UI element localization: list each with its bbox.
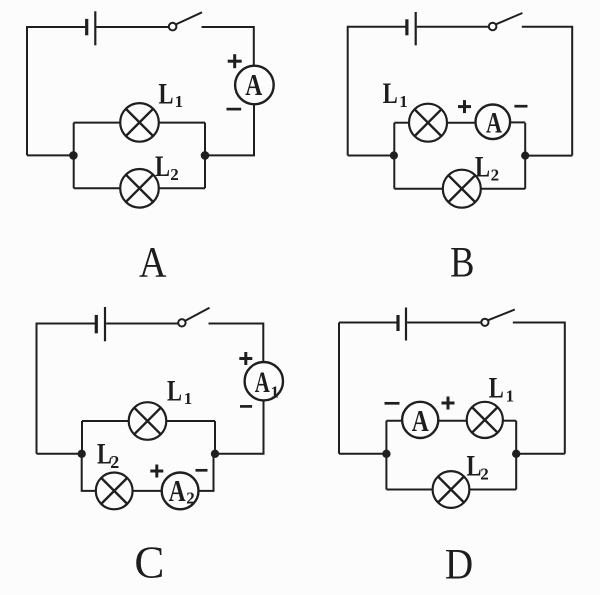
wire B left branch vertical [393, 123, 395, 189]
svg-text:A: A [139, 239, 167, 286]
node A right junction [201, 151, 210, 160]
ammeter A1-C [245, 362, 283, 402]
node C right junction [211, 450, 219, 458]
battery BT-C [96, 307, 105, 341]
wire A lower branch left [74, 187, 121, 189]
svg-text:A: A [245, 67, 262, 102]
polarity + of ammeter A-A [228, 54, 242, 68]
wire D right branch vertical [515, 421, 517, 490]
wire B ammeter to right branch [510, 121, 525, 123]
svg-text:A: A [486, 106, 502, 139]
wire C left branch vertical lower [82, 454, 96, 491]
wire B top-left segment [348, 26, 406, 28]
switch S-B [489, 13, 523, 30]
lamp L2-A [120, 169, 159, 208]
wire C upper branch right [166, 420, 215, 422]
wire C ammeter A1 down to main node row [215, 400, 264, 453]
node A left junction [69, 151, 78, 160]
svg-text:L: L [167, 375, 182, 408]
svg-text:2: 2 [491, 166, 500, 185]
wire B battery to switch [417, 26, 489, 28]
svg-text:2: 2 [480, 465, 489, 484]
node B left junction [390, 151, 398, 159]
svg-text:1: 1 [506, 387, 514, 406]
node D right junction [512, 450, 520, 458]
battery BT-B [407, 12, 416, 45]
wire D ammeter to lamp L1 [438, 420, 466, 422]
wire B lower branch left [394, 188, 443, 190]
wire D main left segment [339, 453, 386, 455]
label L2-D [467, 450, 489, 484]
polarity - of ammeter A2-C [196, 469, 208, 472]
wire A ammeter to main node row [205, 104, 254, 155]
svg-text:2: 2 [110, 452, 119, 472]
label L1-C [167, 375, 192, 408]
label L2-B [475, 151, 499, 185]
battery BT-A [87, 11, 96, 45]
wire A upper branch right [159, 122, 205, 124]
wire B upper branch left [394, 122, 409, 124]
ammeter A-D [402, 402, 438, 438]
wire B lower branch right [481, 188, 525, 190]
wire C right branch vertical [214, 421, 216, 454]
wire A battery to switch [96, 26, 168, 28]
answer letter A [139, 239, 167, 286]
polarity - of ammeter A-D [385, 402, 400, 405]
svg-text:2: 2 [170, 165, 179, 184]
wire A left branch vertical [73, 123, 75, 189]
wire C ammeter A2 to right junction [199, 454, 214, 491]
wire D top-left segment [339, 322, 397, 324]
battery BT-D [398, 308, 406, 341]
wire C left branch vertical upper [81, 421, 83, 454]
lamp L1-D [467, 402, 503, 438]
wire A top-left segment [27, 26, 85, 28]
svg-text:B: B [450, 239, 474, 286]
svg-text:2: 2 [186, 489, 195, 508]
wire A switch to top-right corner, down to ammeter [202, 27, 254, 66]
ammeter A-A [235, 66, 274, 105]
svg-text:C: C [134, 538, 164, 588]
ammeter A2-C [162, 473, 199, 510]
wire D main right segment [516, 453, 565, 455]
wire D lower branch right [469, 489, 516, 491]
wire B switch to top-right corner and right side down [522, 27, 572, 156]
svg-text:L: L [383, 77, 398, 110]
wire C lamp L2 to ammeter A2 [133, 490, 162, 492]
label L1-A [159, 77, 184, 111]
wire D left branch vertical [385, 421, 387, 490]
svg-text:1: 1 [184, 389, 193, 408]
wire D battery to switch [407, 322, 481, 324]
wire D left side vertical [338, 323, 340, 454]
svg-text:L: L [155, 150, 170, 183]
wire B right branch vertical [524, 123, 526, 189]
svg-text:1: 1 [271, 383, 280, 402]
wire D left branch to ammeter [386, 420, 402, 422]
polarity - of ammeter A-B [514, 105, 527, 108]
wire B main left segment [348, 155, 394, 157]
wire D switch to top-right corner and right side down [513, 323, 565, 454]
lamp L2-B [443, 170, 481, 208]
svg-text:D: D [445, 541, 473, 588]
lamp L1-B [409, 104, 447, 142]
wire C upper branch left [82, 420, 129, 422]
label L1-D [489, 372, 514, 406]
wire C switch to top-right corner, down to ammeter A1 [209, 324, 264, 363]
wire C left side vertical [36, 323, 38, 454]
wire C top-left segment [37, 323, 96, 325]
wire A right branch vertical [204, 123, 206, 189]
wire B main right segment [525, 155, 572, 157]
svg-text:L: L [475, 151, 490, 184]
polarity - of ammeter A-A [227, 108, 242, 111]
wire B lamp L1 to ammeter [447, 122, 476, 124]
wire B left side vertical [347, 26, 349, 156]
switch S-D [481, 310, 515, 326]
svg-text:1: 1 [175, 92, 184, 111]
label L2-A [155, 150, 179, 184]
lamp L2-C [96, 473, 133, 510]
answer letter C [134, 538, 164, 588]
polarity + of ammeter A1-C [239, 352, 252, 365]
label L1-B [383, 77, 408, 111]
switch S-C [178, 308, 209, 327]
polarity + of ammeter A2-C [150, 465, 163, 478]
svg-text:A: A [255, 366, 270, 399]
polarity + of ammeter A-B [458, 100, 471, 113]
polarity + of ammeter A-D [442, 397, 455, 410]
wire A upper branch left [74, 122, 121, 124]
svg-text:A: A [412, 403, 429, 438]
wire A left side vertical [26, 26, 28, 155]
answer letter B [450, 239, 474, 286]
wire D lower branch left [386, 489, 432, 491]
svg-text:A: A [169, 473, 186, 508]
polarity - of ammeter A1-C [240, 405, 252, 408]
switch S-A [169, 12, 202, 30]
lamp L1-C [129, 402, 167, 440]
answer letter D [445, 541, 473, 588]
wire A main left segment [27, 154, 73, 156]
ammeter A-B [476, 105, 511, 140]
wire A lower branch right [159, 187, 205, 189]
wire D lamp L1 to right branch [503, 420, 516, 422]
svg-text:L: L [489, 372, 504, 405]
svg-text:L: L [159, 77, 174, 110]
wire C battery to switch [106, 323, 178, 325]
node B right junction [521, 152, 529, 160]
label L2-C [97, 438, 119, 472]
svg-text:1: 1 [399, 92, 408, 111]
lamp L2-D [433, 471, 470, 508]
lamp L1-A [120, 103, 159, 142]
wire C main left segment [37, 453, 82, 455]
node D left junction [382, 450, 390, 458]
node C left junction [78, 450, 86, 458]
